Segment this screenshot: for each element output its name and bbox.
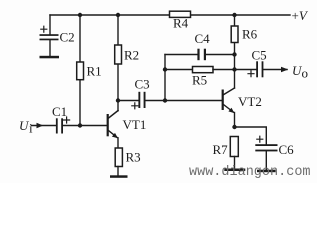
node rail-R6 — [232, 13, 236, 17]
svg-text:R7: R7 — [213, 142, 229, 157]
svg-text:C6: C6 — [279, 142, 295, 157]
wire R3 to ground — [117, 167, 119, 176]
wire R1 branch from rail to base node — [79, 15, 81, 126]
resistor R6 — [231, 26, 257, 43]
ground under R3 — [110, 175, 128, 178]
wire input with arrow — [32, 125, 57, 127]
wire output with arrow — [264, 69, 288, 71]
svg-text:R5: R5 — [192, 73, 207, 88]
wire feedback to C4 — [165, 54, 198, 56]
svg-text:R1: R1 — [87, 64, 102, 79]
resistor R5 — [192, 67, 213, 88]
ground under C6 — [257, 170, 276, 173]
node base-R1 — [78, 123, 82, 127]
wire VT1 collector up — [117, 101, 119, 111]
wire top supply rail — [50, 14, 290, 16]
resistor R3 — [115, 148, 140, 167]
capacitor C6 — [255, 136, 294, 157]
wire R5 to collector node — [213, 69, 235, 71]
svg-text:VT1: VT1 — [123, 117, 147, 132]
svg-text:www.diangon.com: www.diangon.com — [189, 165, 311, 180]
node rail-R2 — [116, 13, 120, 17]
capacitor C5 — [248, 48, 267, 78]
wire feedback to R5 — [165, 69, 193, 71]
transistor VT2 — [222, 88, 262, 113]
node feedback-R5 — [163, 67, 167, 71]
svg-text:VT2: VT2 — [238, 94, 262, 109]
node rail-R1 — [78, 13, 82, 17]
svg-text:i: i — [29, 121, 33, 136]
wire C3 to VT2 base — [146, 100, 222, 102]
ground under C2 — [40, 56, 60, 59]
wire R6 branch from rail to VT2 collector — [234, 15, 236, 88]
wire C2 to ground — [49, 40, 51, 56]
ground under R7 — [224, 169, 245, 172]
svg-text:R4: R4 — [173, 16, 189, 31]
wire R2 branch from rail to collector node — [117, 15, 119, 101]
wire VT2 emitter down — [234, 113, 236, 128]
wire feedback vertical — [164, 55, 166, 101]
wire emitter to C6 — [235, 127, 267, 144]
resistor R2 — [115, 45, 139, 64]
svg-text:R6: R6 — [242, 27, 258, 42]
wire C6 to ground — [265, 151, 267, 170]
capacitor C4 — [195, 31, 211, 60]
wire C4 to collector node — [206, 54, 235, 56]
wire C1 to VT1 base — [63, 125, 107, 127]
svg-text:o: o — [302, 66, 309, 81]
resistor R7 — [213, 137, 239, 158]
wire collector node to C5 — [235, 69, 257, 71]
node C4-collector — [232, 52, 236, 56]
svg-text:C1: C1 — [52, 104, 67, 119]
transistor VT1 — [107, 111, 147, 139]
svg-text:C2: C2 — [60, 30, 75, 45]
svg-text:C4: C4 — [195, 31, 211, 46]
svg-text:C3: C3 — [135, 77, 150, 92]
node feedback tap — [163, 98, 167, 102]
svg-text:+V: +V — [292, 8, 309, 23]
node collector-C3 — [116, 98, 120, 102]
node emitter — [232, 125, 236, 129]
wire C2 branch from rail — [49, 15, 51, 35]
svg-text:R3: R3 — [126, 150, 141, 165]
svg-text:R2: R2 — [124, 48, 139, 63]
node R5-C5-collector — [232, 67, 236, 71]
resistor R1 — [77, 62, 102, 80]
wire VT1 emitter down — [117, 138, 119, 148]
capacitor C2 — [40, 26, 75, 44]
svg-text:C5: C5 — [252, 48, 267, 63]
resistor R4 — [170, 11, 191, 30]
capacitor C1 — [52, 104, 70, 134]
wire R7 to ground — [234, 157, 236, 169]
wire collector node to C3 — [118, 100, 139, 102]
capacitor C3 — [132, 77, 150, 109]
